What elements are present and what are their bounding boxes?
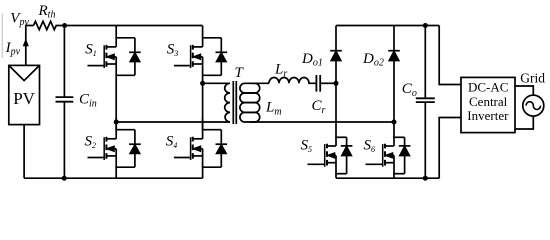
node: primary top tap [200,81,205,86]
label S3 [167,42,179,58]
svg-text:PV: PV [13,89,35,108]
switch S3 [174,26,227,76]
switch S4 [174,118,227,168]
svg-text:Ipv: Ipv [5,40,21,58]
switch S6 [366,137,411,173]
capacitor Cr [316,75,320,92]
switch S5 (compact MOSFET with body diode) [308,137,353,173]
PV source [9,65,40,124]
label Cr [312,98,326,116]
label Ipv [5,40,21,58]
svg-text:Cr: Cr [312,98,326,116]
svg-text:Lr: Lr [274,61,287,79]
svg-text:Co: Co [402,81,417,99]
svg-text:S1: S1 [85,42,97,58]
wire: bottom-right rail [336,177,439,179]
wire: inverter to grid top [515,86,533,95]
svg-text:Rth: Rth [38,3,56,20]
wire: S5 source to bottom rail [335,174,337,179]
svg-text:Grid: Grid [520,71,545,86]
svg-text:Do2: Do2 [362,51,384,69]
svg-text:S2: S2 [85,134,97,150]
transformer T primary winding [225,83,230,122]
wire: Vpv corner to resistor [26,26,34,66]
diode Do1 [330,26,342,138]
svg-text:T: T [235,65,245,81]
wire: top-right rail [336,25,439,27]
wire: bridge midpoint to primary bottom [116,121,230,123]
wire: S6 source to bottom rail [393,174,395,179]
resistor Rth [34,21,65,29]
label S1 [85,42,97,58]
svg-text:Do1: Do1 [301,51,323,69]
wire: primary top lead [203,82,230,84]
wire: secondary top lead [250,82,269,84]
switch S1 (MOSFET with body diode) [88,26,141,76]
capacitor Cin [56,26,74,179]
label Vpv [10,11,29,29]
label Grid [520,71,545,86]
label S5 [301,138,313,154]
AC source (grid) [523,95,544,116]
svg-text:Lm: Lm [265,99,282,117]
wire: DC link to inverter bottom [439,118,461,179]
svg-text:DC-AC: DC-AC [468,80,508,95]
current arrow Ipv [23,38,29,46]
svg-text:S4: S4 [166,134,178,150]
node: secondary bottom to right leg [392,120,397,125]
label Rth [38,3,56,20]
node: left leg midpoint [114,120,119,125]
faint left border artifact [1,14,3,59]
node: top-left rail junction [62,23,67,28]
wire: PV bottom to rail [23,125,25,179]
inverter box DC-AC Central Inverter [461,77,515,132]
label Co [402,81,417,99]
label S4 [166,134,178,150]
wire: top-left rail [65,25,203,27]
svg-text:Central: Central [469,94,508,109]
label Lm [265,99,282,117]
node: Co top [423,23,428,28]
label Do1 [301,51,323,69]
label S2 [85,134,97,150]
wire: secondary bottom lead [250,121,394,123]
capacitor Co [416,26,435,179]
svg-text:Inverter: Inverter [467,108,509,123]
label T [235,65,245,81]
wire: S2 source to bottom rail [115,167,117,178]
transformer core [233,81,236,124]
node: Cr to rectifier leg [334,81,339,86]
wire: right leg S3-S4 [202,75,204,129]
node: Co bottom [423,176,428,181]
wire: bottom-left rail [24,177,203,179]
svg-text:S6: S6 [364,138,376,154]
transformer secondary winding [240,83,260,122]
wire: left leg S1-S2 [115,75,117,129]
svg-text:Cin: Cin [79,92,97,110]
label S6 [364,138,376,154]
wire: S4 source to bottom rail [202,167,204,178]
label Do2 [362,51,384,69]
wire: DC link to inverter top [439,26,461,85]
svg-text:S5: S5 [301,138,313,154]
svg-text:S3: S3 [167,42,179,58]
diode Do2 [388,26,400,138]
node: bottom rail / Cin [62,176,67,181]
label Lr [274,61,287,79]
wire: inverter to grid bottom [515,116,533,129]
inductor Lr [269,78,316,84]
switch S2 [88,118,141,168]
label Cin [79,92,97,110]
